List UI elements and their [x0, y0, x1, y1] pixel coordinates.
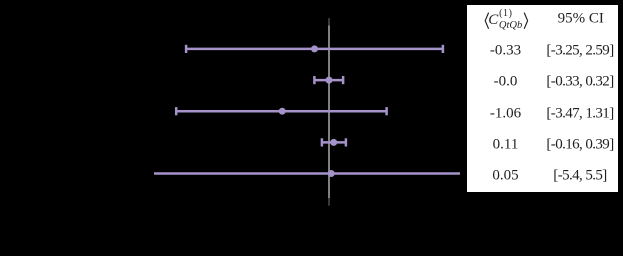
header col 2 — [558, 10, 604, 27]
zero line dark top segment — [328, 18, 330, 25]
zero line dark bottom segment — [328, 198, 330, 206]
row 1 — [490, 43, 521, 60]
row 2 — [494, 74, 518, 91]
errorbar row 1 — [186, 45, 443, 53]
errorbar row 2 — [314, 76, 343, 84]
zero line main grey segment — [328, 26, 330, 199]
errorbar row 3 — [176, 107, 386, 115]
errorbar row 4 — [322, 138, 346, 146]
row 4 — [493, 136, 519, 153]
row 3 — [490, 106, 521, 123]
row 5 — [492, 168, 518, 185]
errorbar row 5 (clipped at axes, no caps) — [154, 170, 460, 177]
header col 1: <C^(1)_QtQb> (built from absolute parts; coords rel to table) — [484, 12, 490, 30]
